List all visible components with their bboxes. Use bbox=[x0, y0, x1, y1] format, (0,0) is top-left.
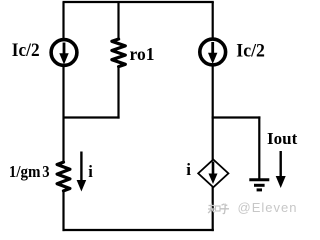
arrow Iout bbox=[276, 151, 286, 188]
watermark zhihu bbox=[208, 204, 229, 214]
wire ro1 branch upper bbox=[117, 2, 119, 39]
svg-text:i: i bbox=[186, 160, 191, 179]
wire right branch middle bbox=[212, 65, 214, 161]
svg-text:Iout: Iout bbox=[267, 129, 298, 148]
wire left branch lower bbox=[62, 191, 64, 231]
svg-text:3: 3 bbox=[42, 162, 49, 181]
wire bottom rail bbox=[63, 229, 214, 231]
wire ground branch bbox=[258, 116, 260, 179]
resistor 1/gm3 bbox=[57, 162, 70, 191]
svg-text:Ic/2: Ic/2 bbox=[12, 40, 40, 61]
wire left branch middle bbox=[62, 65, 64, 162]
wire top rail bbox=[63, 1, 214, 3]
svg-text:Ic/2: Ic/2 bbox=[236, 40, 265, 61]
dependent current source diamond bbox=[198, 160, 228, 188]
wire right branch upper bbox=[212, 2, 214, 40]
current source I2 Ic/2 bbox=[200, 39, 226, 65]
current source I1 Ic/2 bbox=[51, 40, 77, 66]
wire ro1 branch lower bbox=[117, 67, 119, 119]
wire left branch upper bbox=[62, 2, 64, 40]
wire right branch lower bbox=[212, 187, 214, 231]
resistor ro1 bbox=[112, 39, 125, 67]
svg-text:ro1: ro1 bbox=[130, 44, 155, 64]
junction wire right bbox=[212, 116, 261, 118]
svg-text:1/gm: 1/gm bbox=[9, 162, 41, 181]
current arrow i left bbox=[77, 152, 87, 192]
ground bbox=[249, 180, 269, 190]
svg-text:i: i bbox=[88, 162, 93, 181]
svg-text:@Eleven: @Eleven bbox=[238, 200, 298, 215]
junction wire left bbox=[63, 116, 120, 118]
